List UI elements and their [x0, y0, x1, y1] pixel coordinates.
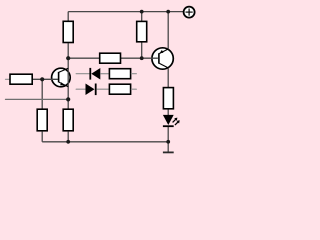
wire R2 top leg [141, 12, 143, 21]
wire node A down through Q1 to RB [67, 58, 69, 108]
node dot bottom rail LED [166, 140, 170, 144]
transistor Q2 emitter arrow [160, 50, 164, 53]
wire ground stem [167, 142, 169, 152]
diode D2 left pin [76, 88, 85, 90]
wire LED to bottom rail [167, 127, 169, 142]
wire Q2 collector to R6 [167, 68, 169, 87]
node dot bottom rail RB [66, 140, 70, 144]
transistor Q2 collector line [159, 63, 168, 68]
resistor R6 [163, 88, 173, 109]
transistor Q1 body [52, 68, 71, 87]
node dot top rail Q2 [166, 10, 170, 14]
LED D3 emission arrow 1 [173, 118, 178, 123]
ground [163, 151, 174, 153]
LED D3 cathode bar [163, 125, 174, 127]
wire left riser [67, 12, 69, 21]
wire R_left to Q1 base [33, 78, 58, 80]
supply terminal + [184, 7, 195, 18]
resistor R4 [109, 69, 130, 79]
diode D2 right pin [97, 88, 109, 90]
diode D1 cathode bar [89, 68, 91, 80]
resistor R5 right stub [131, 88, 136, 90]
node dot mid wire R2 [140, 56, 144, 60]
diode D1 right pin [100, 73, 108, 75]
wire R6 to LED [167, 110, 169, 116]
transistor Q1 emitter line [59, 82, 68, 87]
node A dot [66, 56, 70, 60]
diode D1 left pin [76, 73, 89, 75]
wire bottom rail [42, 141, 168, 143]
transistor Q2 base bar [158, 53, 160, 64]
wire node B down to RA [41, 79, 43, 108]
wire mid horizontal node A to Q2 base [68, 57, 158, 59]
wire second input horizontal [6, 98, 69, 100]
wire Q2 emitter to top rail [167, 12, 169, 50]
diode D2 cathode bar [95, 84, 97, 96]
resistor R2 [137, 21, 147, 41]
transistor Q1 emitter arrow [60, 82, 64, 85]
transistor Q1 base bar [58, 72, 60, 83]
resistor R4 right stub [131, 73, 136, 75]
LED D3 emission arrow 2 [175, 120, 180, 125]
resistor R_left [10, 74, 32, 84]
resistor R5 [109, 84, 130, 94]
wire top rail [68, 11, 183, 13]
transistor Q2 emitter line [159, 49, 168, 54]
wire RA bottom leg [41, 132, 43, 142]
node B dot base [40, 77, 44, 81]
node dot emitter junction [66, 97, 70, 101]
transistor Q2 body [152, 48, 173, 69]
wire R1 bottom to node A [67, 43, 69, 58]
wire base input left [6, 78, 10, 80]
node dot top rail R2 [140, 10, 144, 14]
LED D3 triangle [163, 115, 174, 125]
diode D1 triangle [91, 68, 100, 80]
wire RB bottom leg [67, 132, 69, 142]
resistor R1 [63, 21, 73, 42]
resistor RB [63, 109, 73, 131]
diode D2 triangle [86, 84, 95, 96]
wire R2 bottom leg [141, 42, 143, 58]
resistor R3 [100, 53, 121, 63]
resistor RA [37, 109, 47, 131]
transistor Q1 collector line [59, 68, 68, 72]
